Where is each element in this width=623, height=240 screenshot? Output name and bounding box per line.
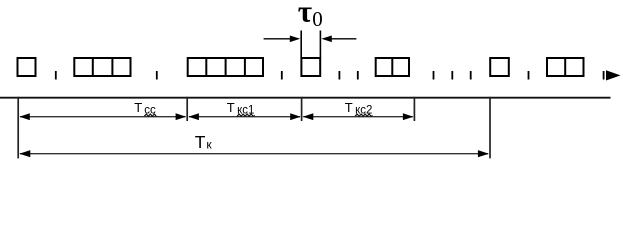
tick t4 (338, 71, 340, 80)
tau0 left arrow (264, 36, 301, 43)
boundary tick B2 (186, 97, 188, 121)
label tau0 (298, 0, 323, 31)
pulse P0 (narrow pulse under tau0) (301, 58, 320, 76)
pulse P2 (single square) (490, 58, 509, 76)
pulse P1 (single square) (18, 58, 36, 76)
tau0 right arrow (321, 36, 356, 43)
tick t8 (470, 71, 472, 80)
label Tkc2 (345, 100, 373, 117)
label Tcc (134, 100, 156, 117)
svg-text:Т: Т (195, 132, 206, 152)
svg-text:0: 0 (312, 7, 323, 31)
dimension Tk (19, 150, 489, 157)
tick t2 (156, 71, 158, 80)
tick t6 (433, 71, 435, 80)
pulse group G2b (two squares) (547, 57, 584, 77)
svg-text:τ: τ (298, 0, 312, 28)
boundary tick B1 (left, long) (17, 97, 19, 159)
boundary tick B5 (right, long) (489, 97, 491, 159)
tick t1 (55, 71, 57, 80)
boundary tick B4 (413, 97, 415, 121)
tick t7 (451, 71, 453, 80)
tick t9 (528, 71, 530, 80)
label Tkc1 (227, 100, 255, 117)
dimension Tcc (19, 113, 186, 120)
svg-text:Т: Т (134, 100, 142, 115)
tick t3 (281, 71, 283, 80)
svg-text:Т: Т (227, 100, 235, 115)
svg-text:к: к (206, 137, 212, 151)
tick t10 (603, 71, 605, 80)
time axis arrowhead (606, 70, 621, 80)
extension line right of tau0 (319, 31, 321, 59)
pulse group G3 (three squares) (74, 57, 130, 77)
dimension Tkc1 (188, 113, 300, 120)
tick t5 (357, 71, 359, 80)
label Tk (195, 132, 213, 152)
boundary tick B3 (301, 97, 303, 121)
pulse group G2a (two squares) (376, 57, 409, 77)
dimension Tkc2 (303, 113, 414, 120)
extension line left of tau0 (300, 31, 302, 59)
baseline (0, 97, 611, 99)
pulse group G4 (four squares) (188, 57, 263, 77)
svg-text:Т: Т (345, 100, 353, 115)
